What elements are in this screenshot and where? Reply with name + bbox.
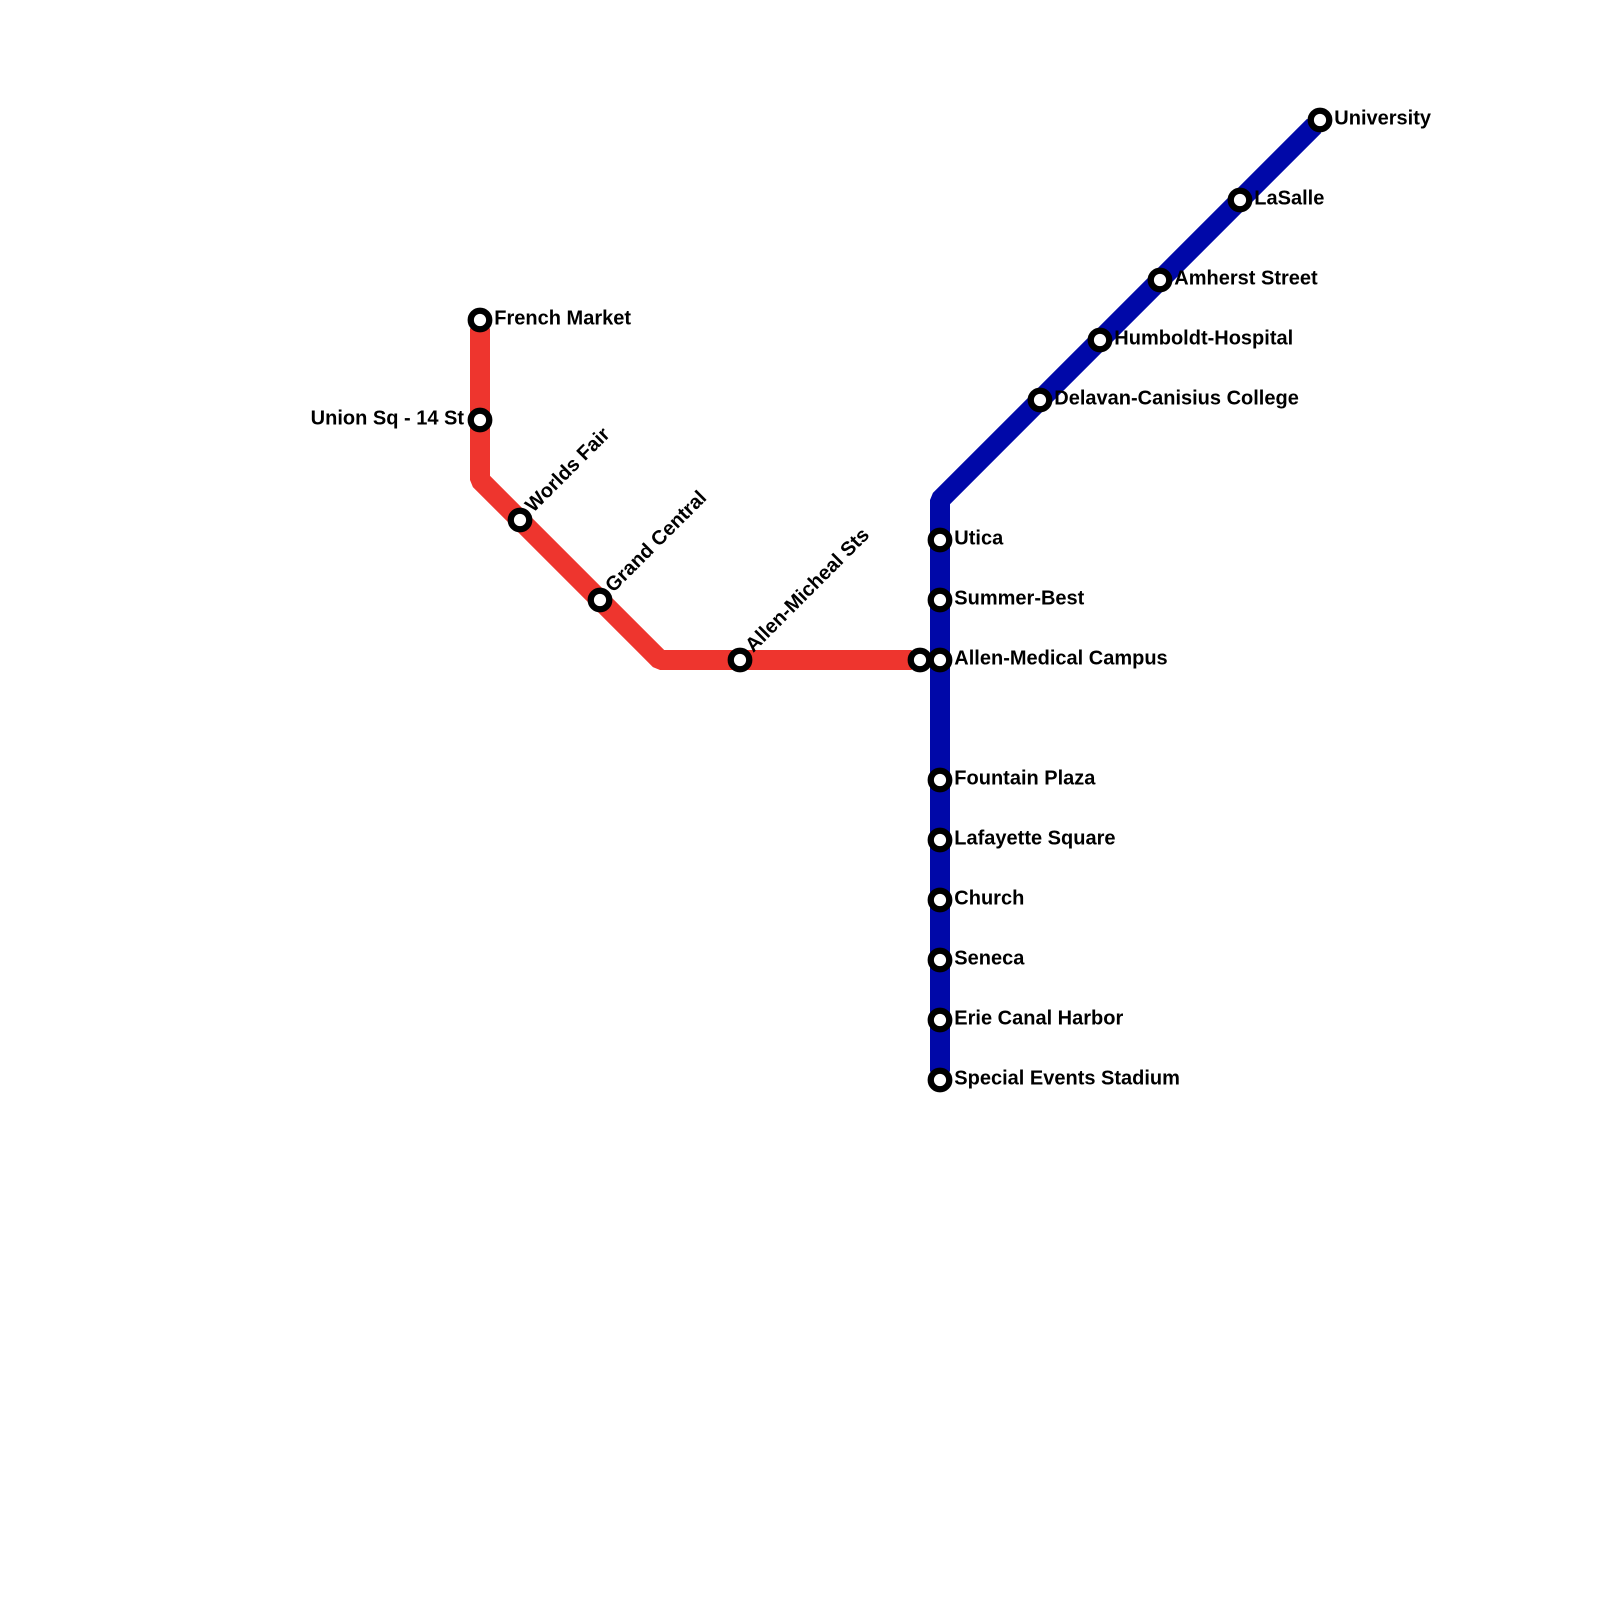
svg-text:Fountain Plaza: Fountain Plaza <box>954 768 1096 790</box>
svg-text:Humboldt-Hospital: Humboldt-Hospital <box>1114 328 1293 350</box>
station Allen-Micheal Sts <box>731 651 750 670</box>
station Fountain Plaza <box>931 771 950 790</box>
station Allen-Medical Campus <box>931 651 950 670</box>
svg-text:University: University <box>1334 108 1432 130</box>
station Humboldt-Hospital <box>1091 331 1110 350</box>
svg-text:Seneca: Seneca <box>954 948 1025 970</box>
station Allen-Medical Campus red stop <box>911 651 930 670</box>
red line <box>480 328 912 660</box>
station Worlds Fair <box>511 511 530 530</box>
svg-text:French Market: French Market <box>494 308 631 330</box>
svg-text:Lafayette Square: Lafayette Square <box>954 828 1115 850</box>
svg-text:Allen-Medical Campus: Allen-Medical Campus <box>954 648 1167 670</box>
station French Market <box>471 311 490 330</box>
station University <box>1311 111 1330 130</box>
station Utica <box>931 531 950 550</box>
station Lafayette Square <box>931 831 950 850</box>
svg-text:Church: Church <box>954 888 1024 910</box>
station Delavan-Canisius College <box>1031 391 1050 410</box>
svg-text:Summer-Best: Summer-Best <box>954 588 1084 610</box>
svg-text:LaSalle: LaSalle <box>1254 188 1324 210</box>
svg-text:Delavan-Canisius College: Delavan-Canisius College <box>1054 388 1299 410</box>
station Grand Central <box>591 591 610 610</box>
svg-text:Amherst Street: Amherst Street <box>1174 268 1318 290</box>
station Union Sq - 14 St <box>471 411 490 430</box>
station Summer-Best <box>931 591 950 610</box>
svg-text:Utica: Utica <box>954 528 1004 550</box>
station Church <box>931 891 950 910</box>
station Amherst Street <box>1151 271 1170 290</box>
station Special Events Stadium <box>931 1071 950 1090</box>
station Erie Canal Harbor <box>931 1011 950 1030</box>
svg-text:Special Events Stadium: Special Events Stadium <box>954 1068 1180 1090</box>
svg-text:Erie Canal Harbor: Erie Canal Harbor <box>954 1008 1123 1030</box>
blue line <box>940 126 1314 1072</box>
station Seneca <box>931 951 950 970</box>
svg-text:Union Sq - 14 St: Union Sq - 14 St <box>311 408 465 430</box>
station LaSalle <box>1231 191 1250 210</box>
